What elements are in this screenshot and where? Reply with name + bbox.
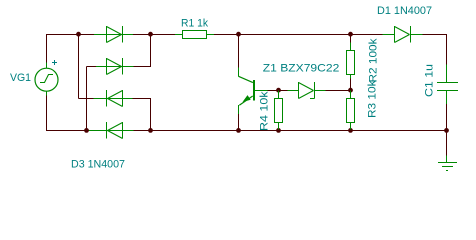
svg-text:Z1 BZX79C22: Z1 BZX79C22 <box>263 63 340 75</box>
svg-text:D3 1N4007: D3 1N4007 <box>71 159 125 171</box>
svg-text:R4 10k: R4 10k <box>259 91 271 131</box>
svg-text:R3 10k: R3 10k <box>367 80 379 118</box>
svg-text:D1 1N4007: D1 1N4007 <box>377 5 432 17</box>
svg-text:R2 100k: R2 100k <box>368 38 380 83</box>
svg-text:C1 1u: C1 1u <box>424 64 436 97</box>
svg-text:VG1: VG1 <box>10 72 31 84</box>
svg-text:R1 1k: R1 1k <box>181 18 209 30</box>
